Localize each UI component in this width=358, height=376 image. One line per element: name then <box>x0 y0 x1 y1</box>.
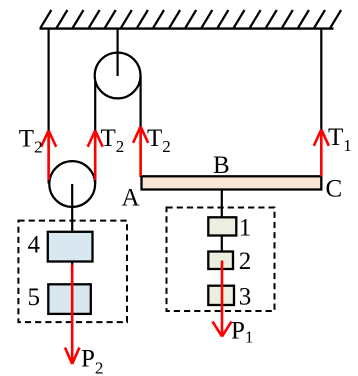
tension arrow T1 on right string <box>314 130 329 177</box>
weight arrow P2 below block 4 <box>65 265 79 365</box>
string left from ceiling to movable pulley <box>47 28 49 184</box>
svg-text:C: C <box>326 176 343 203</box>
dashed box around blocks 4 and 5 <box>18 221 127 323</box>
string between block 1 and block 2 <box>221 235 223 252</box>
block 3 <box>208 286 234 305</box>
block 1 <box>208 217 236 235</box>
tension arrow T2 on middle string <box>88 131 103 181</box>
block 4 <box>48 232 93 262</box>
svg-text:B: B <box>213 152 230 179</box>
svg-text:P2: P2 <box>81 345 103 376</box>
tension arrow T2 on string above A <box>133 127 148 177</box>
string from fixed pulley down to rod end A <box>140 76 142 178</box>
movable pulley <box>49 161 95 207</box>
string right from ceiling to rod end C <box>320 28 322 177</box>
string between movable pulley and fixed pulley <box>94 76 96 184</box>
svg-text:T2: T2 <box>147 125 171 156</box>
string from rod at B down to block 1 <box>221 189 223 218</box>
weight arrow P1 through blocks 2 and 3 <box>213 261 232 337</box>
svg-text:T2: T2 <box>19 126 43 157</box>
block 2 <box>208 252 233 270</box>
svg-text:3: 3 <box>239 284 252 311</box>
svg-text:5: 5 <box>28 284 41 311</box>
svg-text:P1: P1 <box>231 318 253 347</box>
svg-text:2: 2 <box>239 248 252 275</box>
string stub below block 4 <box>71 261 73 267</box>
svg-text:4: 4 <box>28 232 41 259</box>
svg-text:T1: T1 <box>328 124 352 155</box>
svg-text:A: A <box>122 185 140 212</box>
tension arrow T2 on left string <box>41 131 56 181</box>
dashed box around blocks 1 2 3 <box>167 208 275 312</box>
ceiling hatching <box>40 10 341 28</box>
block 5 <box>48 284 91 314</box>
hook string from movable pulley to block 4 <box>71 184 73 233</box>
svg-text:T2: T2 <box>101 125 125 156</box>
support string of fixed pulley <box>116 28 118 76</box>
ceiling line <box>40 27 334 29</box>
fixed pulley <box>95 53 141 99</box>
fixed pulley axle stub <box>116 52 118 76</box>
svg-text:1: 1 <box>239 215 252 242</box>
rod AC <box>142 176 322 189</box>
